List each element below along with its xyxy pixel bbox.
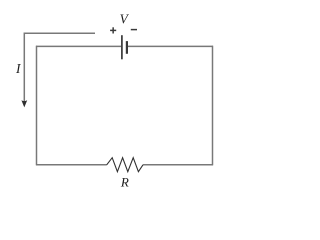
battery plus sign bbox=[110, 29, 116, 31]
wire left side bbox=[36, 46, 38, 166]
resistor R zigzag bbox=[107, 158, 143, 172]
svg-text:R: R bbox=[120, 174, 129, 189]
wire top-right segment (from battery - plate) bbox=[128, 45, 213, 47]
wire bottom-left segment (to resistor) bbox=[36, 164, 107, 166]
battery V short negative plate bbox=[126, 41, 128, 54]
wire top-left segment (to battery + plate) bbox=[36, 45, 121, 47]
current arrowhead bbox=[21, 100, 27, 107]
battery V long positive plate bbox=[121, 35, 123, 59]
current indicator wire (horizontal + vertical) bbox=[24, 33, 95, 103]
wire right side bbox=[212, 46, 214, 166]
wire bottom-right segment (from resistor) bbox=[143, 164, 213, 166]
battery minus sign bbox=[131, 29, 137, 31]
svg-text:I: I bbox=[15, 61, 21, 76]
svg-text:V: V bbox=[120, 12, 130, 27]
